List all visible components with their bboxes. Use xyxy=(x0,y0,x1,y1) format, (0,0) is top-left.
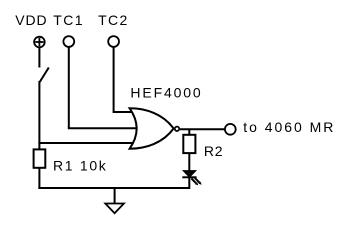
svg-text:TC2: TC2 xyxy=(98,12,127,28)
wire junction to R2 xyxy=(188,129,190,136)
wire TC2 to gate top input xyxy=(114,47,134,112)
wire LED to bottom rail xyxy=(188,177,190,189)
wire bottom rail xyxy=(38,187,190,189)
wire R2 to LED xyxy=(188,152,190,172)
wire gate output to terminal xyxy=(180,128,225,130)
wire node to gate bottom input xyxy=(38,142,136,144)
TC2 terminal xyxy=(108,36,119,47)
switch S1 blade xyxy=(40,68,49,83)
svg-text:TC1: TC1 xyxy=(53,12,82,28)
VDD terminal xyxy=(34,37,45,48)
svg-text:R2: R2 xyxy=(204,143,223,159)
NOR gate U1 HEF4000 xyxy=(130,108,180,148)
wire VDD terminal to switch xyxy=(38,47,40,67)
terminal to 4060 MR xyxy=(225,124,236,135)
output bubble xyxy=(175,127,179,131)
LED D1 xyxy=(182,171,201,186)
svg-text:R1 10k: R1 10k xyxy=(53,157,107,173)
wire R1 to bottom rail xyxy=(38,167,40,189)
svg-text:VDD: VDD xyxy=(15,12,46,28)
ground xyxy=(105,188,124,213)
resistor R1 xyxy=(34,149,46,167)
svg-text:to 4060 MR: to 4060 MR xyxy=(243,119,333,135)
resistor R2 xyxy=(183,135,195,153)
TC1 terminal xyxy=(63,36,74,47)
wire switch to R1 xyxy=(38,81,40,150)
wire TC1 to gate middle input xyxy=(69,47,137,129)
